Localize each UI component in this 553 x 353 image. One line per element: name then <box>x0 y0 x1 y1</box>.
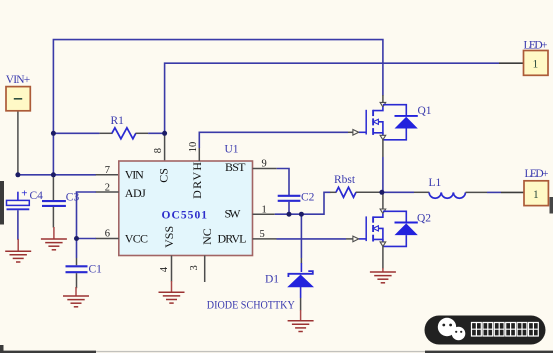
svg-text:VCC: VCC <box>125 231 148 245</box>
svg-text:3: 3 <box>189 265 200 270</box>
wire BST pin9 to C2 <box>253 169 290 196</box>
wire VIN vertical to pin7 rail <box>52 133 54 175</box>
screen artifact bottom line left <box>0 351 96 353</box>
body diode of Q1 <box>395 115 418 117</box>
svg-text:10: 10 <box>188 142 199 153</box>
capacitor C4 (polarized) <box>7 188 44 240</box>
diode D1 schottky <box>265 271 314 310</box>
IC U1 OC5501 body <box>119 144 253 256</box>
wire VSS pin4 to ground <box>171 256 173 282</box>
capacitor C3 <box>42 175 79 228</box>
svg-text:BST: BST <box>225 160 246 174</box>
svg-text:1: 1 <box>533 189 539 201</box>
wire L1 to LED+ 2 <box>466 191 525 193</box>
svg-text:C1: C1 <box>89 263 103 275</box>
svg-text:LED+: LED+ <box>525 168 549 180</box>
ground VSS <box>159 281 185 303</box>
svg-text:R1: R1 <box>111 115 125 127</box>
transistor Q1 <box>353 95 432 140</box>
junction node SW / Rbst / L1 <box>379 190 384 195</box>
wire pin7 stub <box>96 174 119 176</box>
svg-text:1: 1 <box>533 59 539 71</box>
wire VIN top rail <box>53 40 383 134</box>
transistor Q2 <box>353 209 431 246</box>
watermark logo bubbles <box>438 318 456 336</box>
wire Q1 source to SW node <box>382 140 384 193</box>
wire ADJ pin2 to VCC node <box>77 192 119 239</box>
wire LED1 connector stub <box>499 62 524 64</box>
watermark pill <box>425 316 546 345</box>
svg-text:U1: U1 <box>225 144 239 156</box>
svg-text:Q2: Q2 <box>417 213 431 225</box>
svg-text:CS: CS <box>156 168 170 183</box>
screen artifact bottom-left corner <box>0 345 4 353</box>
svg-text:+: + <box>21 188 27 200</box>
connector VIN+ <box>6 74 31 111</box>
svg-text:DRVH: DRVH <box>190 162 204 199</box>
wire Q2 source to ground <box>382 246 384 268</box>
wire SW node to Q2 drain <box>382 192 384 209</box>
svg-text:DIODE SCHOTTKY: DIODE SCHOTTKY <box>207 300 296 312</box>
screen artifact right nub <box>550 197 553 214</box>
svg-text:Q1: Q1 <box>418 105 432 117</box>
svg-text:VSS: VSS <box>162 226 176 248</box>
wire VCC pin6 <box>77 238 119 240</box>
screen artifact bottom line mid <box>96 351 425 352</box>
source arrow <box>380 135 386 140</box>
resistor Rbst <box>330 174 381 198</box>
screen artifact left bar <box>0 181 4 225</box>
junction node VCC / C1 <box>74 236 79 241</box>
watermark text glyph blocks <box>472 323 539 337</box>
inductor L1 wire from SW node <box>383 191 429 193</box>
svg-text:C4: C4 <box>30 190 44 202</box>
ground under Q2 <box>370 268 396 283</box>
svg-text:4: 4 <box>159 266 170 272</box>
drain lead dark <box>382 95 384 102</box>
svg-text:7: 7 <box>105 165 110 176</box>
connector LED+ 1 <box>524 40 549 76</box>
wire NC pin3 stub <box>204 256 206 283</box>
junction node R1 left <box>51 131 56 136</box>
wire VIN+ lead <box>17 111 19 175</box>
svg-text:VIN+: VIN+ <box>6 74 31 86</box>
ground under C1 <box>63 287 89 307</box>
wire CS node to LED+ rail <box>165 63 499 133</box>
resistor R1 <box>53 115 164 139</box>
svg-text:SW: SW <box>225 207 242 221</box>
ground under D1 <box>288 310 314 332</box>
svg-text:8: 8 <box>153 148 164 153</box>
junction node C3 tap <box>51 172 56 177</box>
junction node D1 tap <box>299 212 304 217</box>
svg-text:D1: D1 <box>265 273 279 285</box>
svg-text:DRVL: DRVL <box>218 231 247 245</box>
junction node VIN+ lead <box>15 172 20 177</box>
wire SW node to D1 <box>300 214 302 272</box>
capacitor C2 <box>278 192 315 215</box>
svg-text:Rbst: Rbst <box>334 174 356 186</box>
wire DRVL pin5 to Q2 gate <box>253 238 353 240</box>
svg-text:L1: L1 <box>429 177 442 189</box>
junction node R1 right / CS <box>162 131 167 136</box>
svg-text:VIN: VIN <box>125 168 144 182</box>
svg-text:OC5501: OC5501 <box>162 210 208 222</box>
wire VIN horizontal to pin 7 <box>18 174 96 176</box>
svg-text:C3: C3 <box>66 191 80 203</box>
body arrow <box>373 119 378 124</box>
ground under C4 <box>5 239 31 262</box>
junction node C2 bottom <box>287 212 292 217</box>
gate arrow <box>353 130 359 136</box>
svg-text:NC: NC <box>200 228 214 245</box>
svg-text:ADJ: ADJ <box>125 186 146 200</box>
capacitor C1 <box>66 239 103 289</box>
screen artifact bottom line right <box>425 351 553 353</box>
inductor L1 <box>429 177 466 198</box>
connector LED+ 2 <box>524 168 549 206</box>
wire SW pin1 to Rbst <box>253 192 331 214</box>
ground under C3 <box>41 227 67 250</box>
wire CS pin stub <box>164 133 166 161</box>
wire DRVH pin10 to Q1 gate <box>199 132 353 161</box>
svg-text:C2: C2 <box>301 192 315 204</box>
